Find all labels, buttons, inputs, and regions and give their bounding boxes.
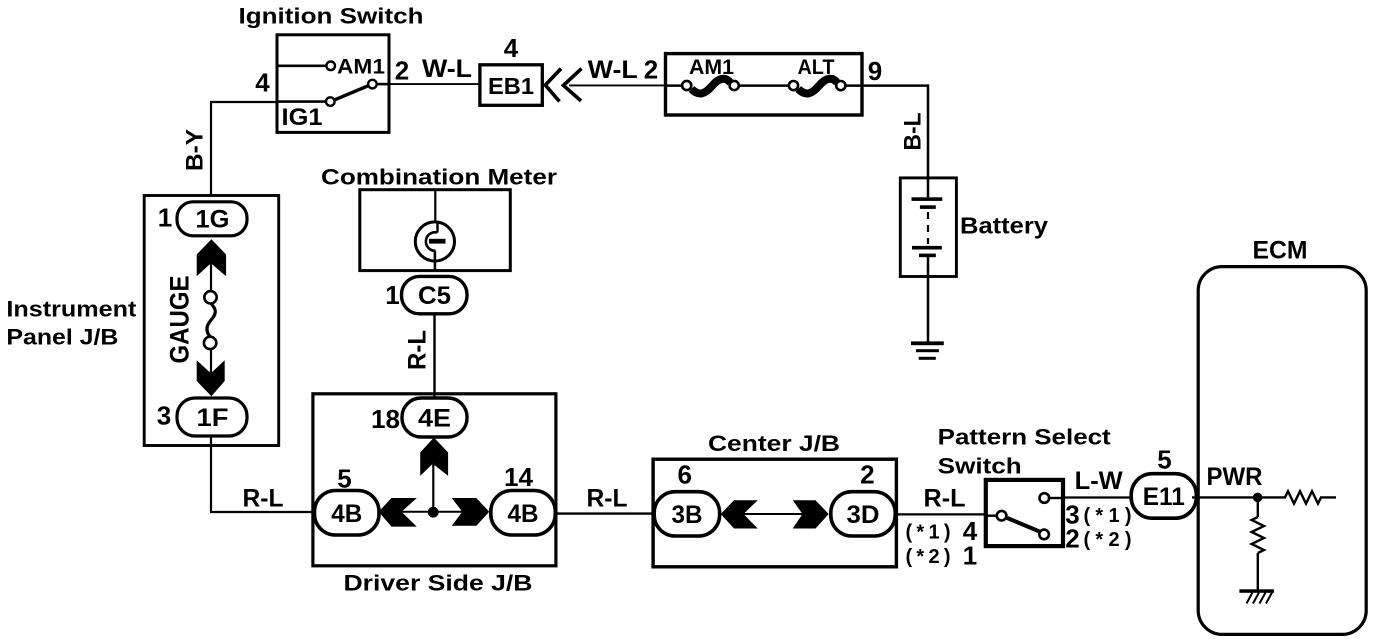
- wire C5 to 4E: [433, 314, 435, 399]
- resistor horizontal (ECM): [1277, 491, 1336, 503]
- svg-text:4B: 4B: [508, 500, 539, 528]
- svg-text:2: 2: [1065, 523, 1079, 553]
- label EB1: [488, 73, 534, 99]
- label AM1 (fusible link): [689, 56, 734, 79]
- svg-text:6: 6: [677, 460, 691, 490]
- svg-text:1: 1: [385, 280, 399, 310]
- fusible link AM1 element: [682, 79, 739, 94]
- svg-text:EB1: EB1: [488, 73, 534, 99]
- connector 3B: [654, 492, 719, 536]
- connector 4B left: [315, 491, 380, 536]
- arrow left (center JB): [721, 500, 758, 528]
- label W-L (right): [588, 56, 638, 84]
- connector 4B right: [491, 491, 556, 536]
- wire ignition to EB1: [389, 83, 480, 85]
- svg-text:Battery: Battery: [960, 213, 1048, 239]
- connector E11: [1131, 474, 1196, 519]
- label 2 (*2): [1065, 523, 1131, 553]
- svg-text:2: 2: [395, 55, 409, 85]
- svg-text:R-L: R-L: [243, 484, 284, 512]
- svg-text:18: 18: [371, 404, 400, 434]
- arrow right (center JB): [793, 500, 829, 528]
- svg-text:( * 1 ): ( * 1 ): [1084, 505, 1132, 527]
- label ALT (fusible link): [798, 56, 835, 79]
- connector chevron 2: [563, 69, 581, 101]
- svg-text:3: 3: [157, 401, 171, 431]
- connector chevron 1: [545, 69, 561, 102]
- svg-text:IG1: IG1: [282, 104, 323, 131]
- ignition switch IG1 output contact: [368, 80, 389, 89]
- fusible link box: [666, 54, 863, 115]
- ignition switch IG1 contact: [277, 97, 335, 106]
- label Ignition Switch: [239, 4, 424, 29]
- wire B-Y vertical: [210, 101, 212, 196]
- svg-text:W-L: W-L: [422, 55, 472, 83]
- connector C5: [402, 276, 468, 313]
- ground (ECM): [1239, 589, 1274, 603]
- arrow right (driver JB): [452, 498, 490, 526]
- ECM box: [1198, 267, 1366, 635]
- pin 3 label (1F): [157, 401, 171, 431]
- pin 1 label (C5): [385, 280, 399, 310]
- svg-text:1: 1: [158, 203, 172, 233]
- svg-text:9: 9: [868, 56, 882, 86]
- svg-text:R-L: R-L: [587, 484, 628, 512]
- wire ignition pin4 to node: [211, 101, 277, 103]
- svg-text:Combination Meter: Combination Meter: [321, 165, 557, 190]
- pin 14 label (4B right): [504, 462, 533, 492]
- ignition switch box: [277, 35, 389, 133]
- svg-text:Switch: Switch: [938, 454, 1022, 479]
- pin 1 label (1G): [158, 203, 172, 233]
- svg-text:3B: 3B: [672, 501, 703, 529]
- svg-text:E11: E11: [1143, 483, 1185, 511]
- fuse arrow down (instrument): [197, 349, 225, 396]
- svg-text:Center J/B: Center J/B: [708, 431, 840, 456]
- driver side J/B box: [313, 394, 556, 566]
- wire 1F down and right to driver JB: [211, 436, 314, 512]
- switch left contact: [986, 511, 1006, 521]
- svg-text:14: 14: [504, 462, 533, 492]
- ignition switch lever: [334, 86, 369, 101]
- wire center JB to pattern select switch: [896, 513, 986, 515]
- pin 2 label (3D): [860, 460, 874, 490]
- svg-text:1F: 1F: [197, 404, 229, 432]
- svg-text:R-L: R-L: [404, 330, 432, 370]
- fusible link ALT element: [789, 79, 846, 94]
- svg-text:Ignition Switch: Ignition Switch: [239, 4, 424, 29]
- label Pattern Select Switch: [938, 425, 1112, 479]
- svg-text:4B: 4B: [331, 500, 362, 528]
- pin 9 label: [868, 56, 882, 86]
- svg-text:C5: C5: [418, 282, 451, 310]
- svg-text:AM1: AM1: [337, 56, 385, 79]
- connector 1G: [177, 202, 247, 236]
- label B-L: [900, 113, 927, 151]
- wire between arrows (center JB): [744, 513, 803, 515]
- wire fusible box to battery corner: [862, 86, 928, 179]
- battery cells: [912, 178, 943, 257]
- svg-text:ECM: ECM: [1253, 237, 1308, 265]
- svg-text:4: 4: [255, 68, 270, 98]
- lamp symbol: [415, 190, 454, 271]
- svg-text:( * 1 ): ( * 1 ): [906, 522, 951, 544]
- svg-text:2: 2: [860, 460, 874, 490]
- arrow up to 4E: [420, 438, 448, 513]
- svg-text:Pattern Select: Pattern Select: [938, 425, 1112, 450]
- pin 4 label (ignition): [255, 68, 270, 98]
- svg-text:1: 1: [963, 541, 977, 571]
- label Center J/B: [708, 431, 840, 456]
- label L-W: [1075, 467, 1123, 495]
- combination meter box: [360, 190, 511, 271]
- label PWR: [1207, 463, 1263, 491]
- svg-text:2: 2: [644, 54, 658, 84]
- ground (battery): [911, 341, 944, 359]
- switch lower right contact: [1039, 530, 1049, 540]
- battery box: [900, 178, 956, 277]
- svg-text:Driver Side J/B: Driver Side J/B: [344, 571, 533, 596]
- ignition switch AM1 contact stub: [277, 62, 335, 71]
- pin 5 label (4B left): [337, 464, 351, 494]
- label Combination Meter: [321, 165, 557, 190]
- label (*1) 4: [906, 516, 978, 546]
- label R-L (vertical): [404, 330, 432, 370]
- svg-text:5: 5: [1157, 445, 1171, 475]
- label Battery: [960, 213, 1048, 239]
- label R-L (driver to center): [587, 484, 628, 512]
- label W-L (left): [422, 55, 472, 83]
- fuse GAUGE element: [204, 291, 217, 349]
- center J/B box: [653, 459, 896, 567]
- pin 5 label (E11): [1157, 445, 1171, 475]
- svg-text:Panel J/B: Panel J/B: [6, 325, 118, 350]
- connector 4E: [402, 398, 467, 437]
- wire between arrows with junction: [402, 507, 463, 518]
- wire driver JB to center JB: [556, 512, 653, 514]
- svg-text:GAUGE: GAUGE: [165, 276, 195, 364]
- label B-Y: [182, 129, 209, 171]
- pin 18 label (4E): [371, 404, 400, 434]
- svg-text:PWR: PWR: [1207, 463, 1263, 491]
- connector EB1 box: [480, 65, 542, 106]
- label R-L (center to switch): [924, 484, 966, 512]
- resistor vertical (ECM): [1252, 497, 1264, 589]
- label Instrument Panel J/B: [6, 297, 137, 350]
- arrow left (driver JB): [379, 498, 417, 527]
- pattern select switch box: [986, 480, 1063, 546]
- label IG1: [282, 104, 323, 131]
- label AM1 (ignition): [337, 56, 385, 79]
- label GAUGE: [165, 276, 195, 364]
- wire chevron to fusible box: [569, 84, 666, 86]
- wire through fusible box: [666, 84, 863, 87]
- label ECM: [1253, 237, 1308, 265]
- switch lever: [1006, 518, 1040, 532]
- pin 2 label (fusible box left): [644, 54, 658, 84]
- connector 1F: [177, 398, 247, 436]
- wire E11 into ECM with junction: [1192, 493, 1277, 503]
- wire battery to ground: [927, 257, 930, 343]
- label R-L (instrument to driver): [243, 484, 284, 512]
- pin 2 label (ignition): [395, 55, 409, 85]
- switch upper right contact: [1040, 493, 1064, 503]
- label (*2) 1: [906, 541, 978, 571]
- fuse arrow up (instrument): [197, 239, 226, 291]
- label 3 (*1): [1065, 499, 1131, 529]
- svg-text:( * 2 ): ( * 2 ): [906, 546, 951, 568]
- wire switch to E11: [1063, 496, 1132, 498]
- svg-text:R-L: R-L: [924, 484, 966, 512]
- svg-text:4: 4: [504, 33, 519, 63]
- svg-text:( * 2 ): ( * 2 ): [1084, 529, 1132, 551]
- pin 4 label (EB1): [504, 33, 519, 63]
- pin 6 label (3B): [677, 460, 691, 490]
- svg-text:1G: 1G: [196, 206, 230, 234]
- svg-text:B-L: B-L: [900, 113, 927, 151]
- svg-text:Instrument: Instrument: [6, 297, 137, 322]
- instrument panel J/B box: [144, 196, 279, 446]
- label Driver Side J/B: [344, 571, 533, 596]
- svg-text:4E: 4E: [418, 405, 451, 433]
- svg-text:L-W: L-W: [1075, 467, 1123, 495]
- svg-text:W-L: W-L: [588, 56, 638, 84]
- connector 3D: [831, 492, 895, 536]
- svg-text:3D: 3D: [847, 501, 880, 529]
- svg-text:B-Y: B-Y: [182, 129, 209, 171]
